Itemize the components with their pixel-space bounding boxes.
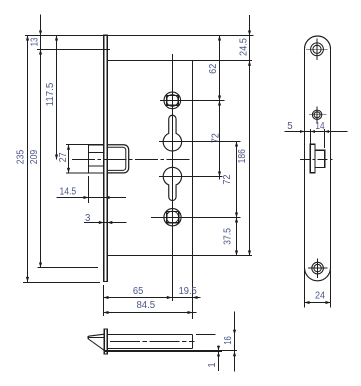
svg-text:65: 65 (133, 286, 143, 297)
svg-text:19.5: 19.5 (179, 286, 197, 297)
svg-text:235: 235 (15, 150, 26, 164)
svg-text:27: 27 (58, 152, 69, 162)
svg-text:13: 13 (29, 38, 40, 47)
svg-text:209: 209 (29, 150, 40, 164)
svg-text:186: 186 (237, 149, 248, 163)
svg-text:62: 62 (208, 64, 219, 74)
svg-text:24.5: 24.5 (239, 38, 250, 56)
svg-text:72: 72 (210, 133, 221, 143)
svg-text:84.5: 84.5 (136, 300, 155, 311)
svg-text:3: 3 (85, 213, 90, 224)
svg-text:16: 16 (223, 336, 234, 345)
svg-text:1: 1 (207, 362, 218, 367)
svg-text:37.5: 37.5 (222, 228, 233, 245)
svg-text:117.5: 117.5 (45, 83, 56, 107)
svg-text:24: 24 (315, 291, 326, 302)
svg-text:14.5: 14.5 (59, 186, 76, 197)
svg-text:72: 72 (222, 175, 233, 185)
svg-text:14: 14 (315, 121, 325, 132)
svg-text:5: 5 (287, 121, 292, 132)
